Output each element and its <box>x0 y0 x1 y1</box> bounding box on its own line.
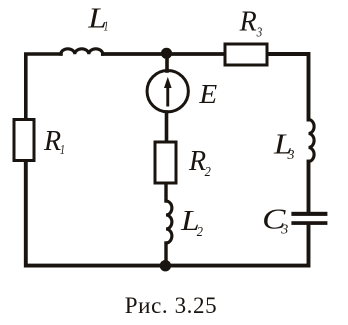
capacitor C3 plate bottom <box>291 221 327 225</box>
capacitor C3 plate top <box>291 212 327 216</box>
svg-text:2: 2 <box>197 225 203 240</box>
wire bottom-left <box>26 162 166 266</box>
wire node to source E <box>165 54 169 71</box>
node junction dot top <box>161 48 172 59</box>
inductor L1 <box>61 49 103 54</box>
wire R3 to top-right corner <box>269 54 309 120</box>
wire R2 to L2 <box>164 185 167 202</box>
svg-text:3: 3 <box>287 148 295 163</box>
svg-text:2: 2 <box>205 165 211 180</box>
source E arrow <box>166 87 169 107</box>
inductor L2 <box>166 201 172 243</box>
wire top-left segment <box>26 54 61 119</box>
svg-text:R: R <box>43 126 61 157</box>
wire E to R2 <box>165 112 169 141</box>
svg-text:1: 1 <box>104 19 109 34</box>
svg-text:3: 3 <box>280 222 288 237</box>
resistor R2 <box>155 142 176 183</box>
svg-text:E: E <box>198 79 217 109</box>
svg-text:Рис. 3.25: Рис. 3.25 <box>125 293 217 318</box>
wire L2 to bottom node <box>164 243 167 266</box>
wire L3 to C3 <box>307 162 311 213</box>
source E circle <box>147 71 188 112</box>
wire L1 to node <box>103 52 167 56</box>
svg-text:3: 3 <box>256 26 262 41</box>
resistor R3 <box>225 44 267 65</box>
inductor L3 <box>309 120 315 162</box>
svg-text:1: 1 <box>60 143 65 158</box>
svg-text:R: R <box>188 146 206 177</box>
wire C3 to bottom-right corner <box>166 225 309 266</box>
wire node to R3 <box>167 52 225 56</box>
resistor R1 <box>14 120 34 161</box>
node junction dot bottom <box>160 260 171 271</box>
svg-text:R: R <box>239 6 257 37</box>
